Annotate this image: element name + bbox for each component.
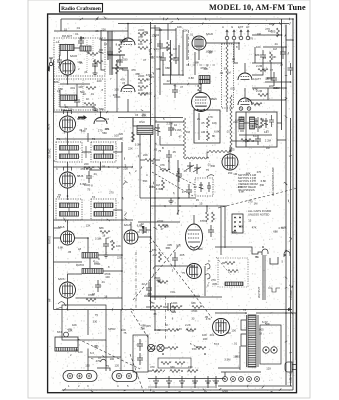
- wire divider h220: [54, 219, 134, 221]
- resistor R15 vertical: [162, 180, 165, 190]
- dashed stator line 2: [152, 172, 193, 196]
- wire vertical pair: [182, 30, 184, 75]
- T4 secondary: [94, 212, 113, 217]
- wire: [133, 118, 137, 127]
- wire top drop from bus to FM section: [60, 19, 62, 31]
- resistor det vertical: [198, 85, 201, 92]
- resistor R2: [86, 87, 96, 90]
- antenna terminal A3: [239, 30, 243, 40]
- dashed box loop antenna: [222, 44, 234, 108]
- wire: [155, 197, 196, 199]
- capacitor C4: [74, 95, 80, 107]
- capacitor C11: [172, 84, 178, 98]
- resistor RT1 vertical: [167, 42, 170, 51]
- speaker field hatched base: [55, 348, 78, 352]
- wire V1 plate: [67, 51, 69, 60]
- wire step 2: [270, 257, 278, 264]
- capacitor CF1: [137, 339, 143, 351]
- value labels: [232, 57, 274, 93]
- wire h: [252, 87, 286, 89]
- value labels: [138, 28, 217, 101]
- wire second top bus: [118, 23, 289, 25]
- vertical connectors: [154, 310, 156, 330]
- wire V6 top: [200, 84, 202, 93]
- tube V5 6AU6 hatched: [192, 36, 206, 50]
- wire y298: [76, 297, 123, 299]
- wire mid vertical: [127, 99, 129, 112]
- tube V10 6AV6: [60, 282, 76, 298]
- wire stub y48: [160, 47, 171, 49]
- wire vertical: [262, 255, 264, 300]
- trimmer cap: [99, 46, 104, 58]
- wire: [113, 142, 122, 152]
- T2 primary: [94, 146, 113, 151]
- wire mid horizontal at 117: [118, 117, 183, 119]
- capacitor CC1: [280, 47, 286, 59]
- wire v170: [170, 40, 172, 84]
- value labels: [56, 117, 110, 199]
- wire vertical branch 2: [116, 60, 118, 112]
- wire horizontal y198 ext: [140, 197, 155, 199]
- junction dots: [148, 236, 176, 297]
- wire horizontal y122: [155, 121, 184, 123]
- wire terminal drops: [224, 372, 226, 377]
- wire: [97, 368, 110, 371]
- junction dots: [127, 23, 202, 85]
- wire left vertical: [53, 60, 55, 112]
- wire box right drop: [105, 340, 107, 371]
- transformer core line 2: [257, 315, 259, 367]
- resistor RA vertical: [206, 212, 209, 222]
- capacitor C20: [271, 72, 277, 86]
- plug symbol: [285, 362, 296, 372]
- junction dots: [67, 18, 98, 85]
- wire right vertical bus 1: [281, 19, 283, 130]
- resistor RC1 vertical: [277, 28, 280, 37]
- box inner divider: [245, 112, 247, 147]
- capacitor C40: [139, 227, 151, 233]
- wire h from V5: [206, 43, 239, 50]
- tube V4a half: [121, 32, 135, 45]
- tube V4b half: [121, 79, 135, 92]
- resistor R14: [160, 169, 170, 172]
- speaker field box: [55, 337, 78, 351]
- wire top center v1: [159, 28, 161, 52]
- resistor tone 2: [228, 270, 238, 273]
- phono input arrow: [142, 226, 145, 230]
- dash-dot stub: [137, 231, 150, 233]
- dial cord dash diagonal 1: [150, 237, 212, 318]
- wire V9 top: [67, 220, 69, 231]
- terminal strip TS2 partial: [112, 371, 137, 382]
- wire right steps: [286, 25, 293, 40]
- ground G1: [93, 70, 98, 76]
- wire: [144, 295, 200, 297]
- wire h2: [130, 222, 132, 230]
- wire: [59, 90, 61, 95]
- wire right col h1: [252, 34, 282, 36]
- svg-text:MODEL 10, AM-FM Tune: MODEL 10, AM-FM Tune: [209, 3, 306, 12]
- value labels: [124, 219, 210, 294]
- wire RA leads: [206, 206, 208, 212]
- wire step path: [215, 247, 262, 254]
- wire right vertical bus 4: [292, 19, 294, 390]
- resistor R20: [258, 69, 268, 72]
- electrolytic caps row: [153, 376, 219, 388]
- wire fm h68: [112, 67, 128, 69]
- capacitor C1: [78, 36, 84, 48]
- wire tick marks: [63, 17, 292, 393]
- antenna terminal: [49, 58, 53, 66]
- capacitor CT2: [173, 52, 179, 64]
- junction dots: [281, 18, 294, 83]
- wire h y100: [245, 99, 286, 101]
- resistor fm v120: [119, 44, 122, 53]
- value labels: [58, 225, 121, 297]
- junction dots: [67, 111, 102, 197]
- wire: [234, 40, 238, 63]
- cap inside: [207, 182, 211, 192]
- resistor row2b: [196, 347, 206, 350]
- pin labels: [57, 330, 129, 388]
- coil L1b: [80, 46, 91, 51]
- hook component: [100, 359, 106, 366]
- tone network dashed box: [218, 258, 248, 287]
- wire V4a plate: [127, 24, 129, 33]
- FM det winding 1: [199, 76, 210, 80]
- transformer core lines: [246, 315, 248, 367]
- resistor row3 c: [188, 370, 198, 373]
- output area box top: [150, 296, 222, 298]
- wire det: [194, 52, 196, 75]
- wire grid bus: [89, 162, 101, 170]
- junction dots: [154, 329, 206, 372]
- ground G4: [104, 252, 109, 258]
- wire bottom h309: [54, 309, 216, 311]
- wire vertical: [87, 310, 89, 335]
- resistor R22: [241, 139, 251, 142]
- wire y262: [54, 261, 83, 263]
- wire: [244, 88, 246, 93]
- tube V13: [187, 264, 202, 279]
- resistor R32: [86, 299, 96, 302]
- wire V8 top: [229, 147, 231, 154]
- wire: [138, 236, 151, 238]
- wire v160 ext: [159, 52, 161, 95]
- capacitor C2: [92, 59, 98, 70]
- trimmer cap T: [156, 124, 161, 136]
- wire: [98, 254, 122, 256]
- wire: [74, 48, 88, 54]
- wire V9 side: [75, 237, 89, 239]
- value labels: [56, 32, 102, 96]
- resistor stack 1: [138, 33, 148, 36]
- wire inside box: [244, 122, 250, 124]
- wire v10 up: [68, 274, 83, 282]
- wire: [160, 136, 184, 145]
- dial cord dashed: [78, 339, 140, 369]
- wire mid horizontal at 112: [53, 111, 150, 113]
- coil L1: [60, 45, 74, 51]
- wire v179: [178, 45, 180, 75]
- wire: [163, 66, 183, 75]
- wire step right: [277, 122, 282, 124]
- hook cluster: [56, 302, 66, 309]
- wire bottom join: [148, 386, 215, 388]
- gang capacitor scalloped vertical 2: [230, 95, 232, 151]
- wire right vertical bus 3: [290, 118, 292, 386]
- switch contact arc 2: [205, 274, 210, 279]
- wire vertical branch: [109, 31, 111, 75]
- wire grid row: [60, 83, 90, 85]
- capacitor C21: [260, 50, 266, 62]
- resistor RC2: [252, 103, 262, 106]
- resistor R21: [258, 94, 268, 97]
- wire h139: [56, 138, 122, 140]
- pilot lamp P1: [147, 344, 154, 351]
- resistor row3 a: [152, 370, 162, 373]
- wire: [89, 258, 91, 268]
- dash diagonal 2: [130, 354, 144, 393]
- capacitor fm 120: [117, 55, 123, 66]
- resistor midrow a: [152, 306, 162, 309]
- wire box bottom components: [239, 134, 272, 136]
- capacitor C14: [166, 150, 172, 162]
- fine print: [248, 209, 271, 217]
- junction dots: [154, 197, 180, 199]
- resistor R41 vertical: [159, 252, 162, 262]
- wire: [76, 84, 78, 95]
- lamp L1: [263, 347, 269, 353]
- capacitor C41: [172, 252, 178, 266]
- tube V3 6BJ6: [60, 172, 76, 188]
- divider box: [158, 358, 191, 368]
- resistor R4: [84, 103, 94, 106]
- T1 primary: [60, 146, 79, 151]
- antenna terminal A4: [246, 30, 250, 40]
- wire V2 cathode down to T1: [67, 132, 69, 145]
- labels in box: [197, 117, 217, 138]
- tube V6 6BE6 large: [192, 93, 211, 112]
- AM IF winding 1: [239, 117, 244, 129]
- tube V2b half: [94, 112, 107, 124]
- resistor RF1 vertical: [207, 118, 210, 128]
- wire V1 cathode: [67, 75, 69, 84]
- wire terminal bus: [221, 371, 261, 373]
- label ant terminals: [222, 25, 250, 29]
- wire hook output 1: [262, 249, 268, 255]
- trimmer screws: [239, 107, 251, 111]
- capacitor C10: [160, 52, 166, 66]
- dashed stator line: [152, 163, 195, 185]
- capacitor CT1: [157, 40, 163, 50]
- wire: [132, 118, 134, 143]
- junction dots: [87, 237, 123, 272]
- lamp circle: [64, 332, 69, 337]
- wire: [155, 159, 160, 161]
- wire verticals gang area: [177, 160, 179, 215]
- resistor row3 b: [170, 370, 180, 373]
- wire right vertical bus 2: [285, 25, 287, 386]
- title box Radio Craftsmen: [60, 4, 103, 13]
- resistor fmx: [93, 61, 103, 64]
- value labels: [139, 117, 206, 195]
- switch contact arc 1: [205, 264, 210, 269]
- capacitor CF2: [137, 353, 143, 365]
- dashdot v165: [165, 296, 167, 340]
- wire h228: [54, 227, 61, 229]
- wire top center h: [151, 27, 161, 29]
- T3 primary: [60, 203, 79, 208]
- labels: [267, 29, 284, 80]
- IF transformer T2 box: [91, 142, 116, 162]
- tube V7a half: [238, 68, 252, 81]
- wire v 225: [224, 206, 226, 248]
- AM IF trimmers: [254, 118, 268, 128]
- wire bottom bus: [218, 385, 292, 387]
- resistor R31 vertical: [112, 240, 115, 250]
- antenna terminal A2: [232, 30, 236, 40]
- value labels scatter: [53, 22, 287, 370]
- wire phono: [142, 230, 144, 234]
- wire hook output 2: [284, 251, 290, 257]
- wire: [277, 139, 286, 141]
- box filter: [133, 335, 148, 372]
- capacitor fmx2: [57, 55, 62, 66]
- wire row1: [155, 329, 168, 331]
- gang capacitor scalloped horizontal: [185, 151, 232, 160]
- resistor R40: [158, 225, 168, 228]
- capacitor C30: [103, 238, 109, 252]
- resistor row2: [168, 347, 178, 350]
- tube V1 6AG5: [60, 60, 75, 75]
- wire right col h2: [263, 46, 286, 48]
- schematic border frame: [48, 14, 297, 393]
- wire: [60, 101, 95, 107]
- tube V7b half: [238, 93, 252, 106]
- capacitor C3: [107, 47, 113, 59]
- wire: [186, 34, 188, 60]
- wire: [155, 265, 195, 267]
- wire V2 plate to top: [67, 112, 69, 116]
- resistor R3 vertical: [116, 64, 119, 74]
- T4 primary: [94, 203, 113, 208]
- value labels: [236, 45, 278, 106]
- wire v88: [87, 133, 89, 142]
- wire V12 top: [193, 215, 195, 224]
- wire V10 bottom: [67, 298, 69, 310]
- wire vertical: [168, 162, 170, 170]
- coil L2: [60, 95, 77, 101]
- junction dot: [238, 39, 294, 44]
- IF transformer T4 box: [91, 199, 116, 220]
- power transformer winding: [248, 315, 256, 367]
- wire tone links: [222, 262, 225, 264]
- tone winding: [225, 282, 243, 286]
- wire bottom bus 2: [148, 378, 225, 380]
- resistor tone 1: [225, 262, 235, 265]
- tube V8 6BA6: [222, 154, 238, 170]
- resistor stack 6: [138, 93, 148, 96]
- IFT center taps: [69, 146, 104, 212]
- wire: [113, 210, 122, 220]
- wire T1-T2 link: [82, 151, 91, 153]
- wire V3 bottom: [67, 188, 69, 200]
- capacitor C42: [146, 282, 152, 296]
- V3 top cap: [64, 167, 72, 171]
- wire vertical x140: [139, 135, 141, 198]
- resistor R30: [100, 231, 110, 234]
- resistor row1 a: [168, 329, 178, 332]
- wire midrow: [146, 306, 152, 308]
- resistor div2: [175, 362, 185, 365]
- capacitor C16: [186, 184, 192, 198]
- tube V9 6AL5: [61, 231, 75, 245]
- AM IF labels: [240, 118, 268, 138]
- resistor div1: [161, 362, 171, 365]
- resistor row1 b: [186, 329, 196, 332]
- shield box FM RF (dashed): [54, 38, 105, 76]
- capacitor CC2: [288, 63, 294, 75]
- pilot lamp P2: [157, 344, 164, 351]
- capacitor C13: [168, 122, 174, 136]
- dial assembly box: [62, 305, 106, 340]
- dashed pointer line: [218, 188, 298, 208]
- tube interior grids: [63, 40, 234, 331]
- wire plug hook: [295, 313, 297, 360]
- wire row3: [148, 370, 152, 372]
- wire transformer left verticals: [239, 346, 241, 370]
- shield interior dotted verticals: [59, 40, 93, 108]
- ratio det coil L9: [82, 269, 103, 274]
- capacitor C31: [95, 280, 101, 292]
- resistor R5: [84, 167, 94, 170]
- T1 secondary: [60, 154, 79, 159]
- wire loop bottom: [226, 105, 228, 112]
- wire: [87, 238, 89, 252]
- wire: [101, 58, 105, 70]
- wire fm h40: [101, 39, 128, 41]
- left bus long: [53, 112, 55, 310]
- resistor stack 3: [138, 47, 148, 50]
- caps pair row1: [163, 303, 176, 311]
- FM IF transformer box: [194, 110, 220, 143]
- lamp L2: [271, 347, 277, 353]
- svg-text:Radio Craftsmen: Radio Craftsmen: [61, 6, 101, 12]
- value labels: [136, 323, 208, 394]
- resistor midrow c: [192, 306, 202, 309]
- wire h: [138, 221, 180, 223]
- wire frame to V9: [54, 237, 61, 239]
- tube V12 6T8 large: [186, 224, 203, 250]
- ratio det coil L8: [82, 253, 98, 259]
- resistor R12: [132, 132, 135, 142]
- variable capacitor VC2: [193, 164, 201, 174]
- socket strip SO1: [232, 214, 243, 233]
- ground G3: [169, 198, 174, 204]
- wire bottom bus: [62, 389, 293, 391]
- ground G5: [93, 107, 98, 112]
- wire vertical: [204, 266, 206, 296]
- power transformer primary bracket: [241, 320, 246, 346]
- labels midrow: [150, 301, 196, 305]
- signal arrow: [78, 115, 87, 120]
- V2 top cap: [64, 111, 72, 115]
- wire in box: [198, 113, 200, 140]
- resistor R42: [158, 281, 168, 284]
- wire h167: [54, 166, 134, 168]
- wire fm v112: [111, 31, 113, 75]
